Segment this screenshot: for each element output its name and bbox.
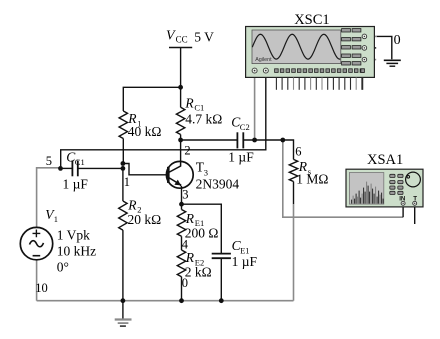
svg-text:V: V: [166, 29, 176, 44]
svg-text:0: 0: [182, 276, 188, 290]
junction node dot 1: [178, 85, 183, 90]
svg-text:3: 3: [182, 188, 188, 202]
wire node5 to scope channel: [61, 78, 266, 169]
resistor R2: [119, 201, 127, 230]
node 0 scope ground: [394, 33, 401, 48]
svg-text:R: R: [184, 95, 194, 110]
svg-text:1 MΩ: 1 MΩ: [296, 172, 328, 187]
svg-text:R: R: [185, 211, 195, 226]
wire C1 to node1: [78, 167, 123, 169]
ground main: [115, 301, 132, 326]
wire node1 to R2: [122, 168, 124, 201]
XSC1 probe pins: [252, 68, 257, 73]
instrument XSC1 oscilloscope: [246, 27, 375, 90]
wire node5 to C1: [61, 167, 73, 169]
XSC1 pin stubs: [276, 78, 362, 90]
label RC1 value: [184, 95, 222, 126]
wire ground rail: [37, 300, 294, 302]
svg-text:5 V: 5 V: [194, 29, 214, 44]
capacitor CE1: [212, 254, 231, 259]
XSA1 knob: [406, 172, 421, 187]
transistor T3 2N3904: [166, 161, 193, 188]
node 10: [35, 281, 48, 295]
instrument XSA1 spectrum analyzer: [346, 169, 423, 207]
wire Rs bottom to rail: [293, 204, 295, 301]
svg-text:CC: CC: [176, 35, 188, 45]
label Rs value: [296, 159, 328, 186]
label C2 value: [228, 115, 254, 165]
label RE2 value: [185, 250, 212, 279]
junction node dot 9: [121, 298, 126, 303]
label XSC1: [294, 12, 329, 28]
svg-text:40 kΩ: 40 kΩ: [128, 124, 162, 139]
svg-text:10: 10: [35, 281, 48, 295]
wire node2 to collector: [180, 140, 182, 162]
junction node dot 7: [280, 138, 285, 143]
label C1 value: [63, 150, 89, 192]
XSA1 IN connector: [401, 201, 405, 205]
junction node dot 11: [219, 298, 224, 303]
junction node dot 2: [58, 166, 63, 171]
wire RE2 to rail: [181, 277, 183, 301]
capacitor C1: [72, 160, 77, 176]
label XSA1: [367, 152, 403, 168]
node 0 emitter: [182, 276, 188, 290]
svg-text:2 kΩ: 2 kΩ: [185, 265, 212, 280]
wire RC1 to node2: [180, 135, 182, 141]
svg-text:200 Ω: 200 Ω: [185, 226, 219, 241]
wire VCC to RC1: [180, 87, 182, 107]
svg-text:XSC1: XSC1: [294, 12, 329, 28]
XSA1 spectrum bars: [352, 182, 384, 204]
svg-text:0: 0: [394, 33, 401, 48]
svg-text:XSA1: XSA1: [367, 152, 403, 168]
wire scope to ground 0: [369, 35, 377, 37]
wire emitter to RE1: [181, 186, 183, 210]
wire CE1 bottom to rail: [220, 258, 222, 300]
junction node dot 10: [179, 298, 184, 303]
junction node dot 8: [179, 202, 184, 207]
ground node 0 (scope): [384, 60, 401, 66]
node 4: [182, 237, 189, 251]
source V1: [20, 227, 52, 259]
label R1 value: [127, 111, 161, 139]
label V1 params: [45, 207, 96, 274]
label RE1 value: [185, 211, 219, 241]
junction node dot 5: [178, 138, 183, 143]
wire VCC lead: [180, 48, 182, 88]
wire RE1 to RE2 node4: [181, 236, 183, 250]
wire node2 to C2: [181, 139, 238, 141]
label R2 value: [127, 197, 161, 227]
svg-text:0°: 0°: [57, 259, 69, 274]
wire scope lower connector stub: [369, 59, 377, 61]
wire scope middle connector stub: [369, 47, 377, 49]
wire C2 to Rs: [243, 140, 293, 159]
resistor R1: [119, 111, 127, 139]
svg-text:1 µF: 1 µF: [228, 149, 254, 164]
svg-text:4.7 kΩ: 4.7 kΩ: [185, 111, 222, 126]
svg-text:6: 6: [295, 144, 301, 158]
wire V1 minus to rail: [36, 260, 38, 301]
resistor RC1: [176, 107, 184, 134]
XSC1 pin row: [275, 69, 365, 73]
svg-text:4: 4: [182, 237, 189, 251]
resistor Rs: [289, 159, 297, 181]
wire R1 bottom lead: [122, 139, 124, 164]
power VCC: [169, 47, 192, 49]
wire scope probe to node6: [254, 78, 256, 141]
junction node dot 6: [252, 138, 257, 143]
wire XSA1 T stub: [414, 205, 416, 224]
wire V1 plus to node5: [37, 168, 61, 227]
svg-text:R: R: [185, 250, 195, 265]
node 6: [295, 144, 301, 158]
wire VCC rail to R1: [123, 87, 180, 111]
node 2: [184, 143, 190, 157]
svg-text:20 kΩ: 20 kΩ: [128, 212, 162, 227]
svg-text:1 µF: 1 µF: [63, 177, 89, 192]
wire R2 to rail: [122, 230, 124, 301]
XSC1 buttons: [342, 29, 361, 65]
svg-text:C1: C1: [75, 157, 85, 167]
wire node1 to base: [123, 164, 168, 175]
XSA1 buttons: [390, 174, 403, 194]
wire Rs lower lead: [293, 182, 295, 205]
svg-text:1: 1: [54, 214, 58, 224]
svg-text:R: R: [127, 197, 137, 212]
label T3: [196, 159, 240, 191]
svg-text:1: 1: [124, 175, 130, 189]
XSC1 right connectors: [362, 34, 367, 39]
svg-text:Agilent: Agilent: [255, 57, 272, 63]
wire node6 to XSA1 IN: [283, 140, 403, 217]
wire XSA1 IN lead: [402, 205, 404, 217]
svg-text:5: 5: [46, 154, 52, 168]
svg-text:2N3904: 2N3904: [196, 177, 240, 192]
label CE1 value: [232, 238, 258, 269]
node 5: [46, 154, 52, 168]
wire emitter node to CE1: [182, 204, 222, 253]
resistor RE1: [177, 210, 185, 237]
svg-text:C2: C2: [240, 122, 250, 132]
node 1: [124, 175, 130, 189]
junction node dot 4: [121, 166, 126, 171]
svg-text:2: 2: [184, 143, 190, 157]
junction node dot 3: [121, 161, 126, 166]
svg-text:10 kHz: 10 kHz: [57, 243, 96, 258]
capacitor C2: [237, 132, 243, 148]
svg-text:1 µF: 1 µF: [232, 254, 258, 269]
svg-text:1 Vpk: 1 Vpk: [57, 227, 90, 242]
XSA1 T connector: [413, 201, 417, 205]
resistor RE2: [177, 250, 185, 277]
node 3: [182, 188, 188, 202]
